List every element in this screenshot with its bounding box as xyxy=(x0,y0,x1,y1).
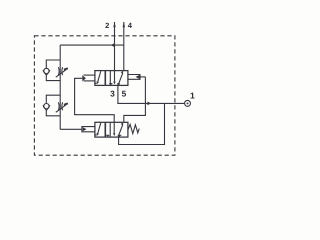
svg-text:3: 3 xyxy=(110,88,115,98)
svg-text:1: 1 xyxy=(190,91,195,101)
svg-text:5: 5 xyxy=(122,88,127,98)
svg-text:2: 2 xyxy=(105,21,109,30)
